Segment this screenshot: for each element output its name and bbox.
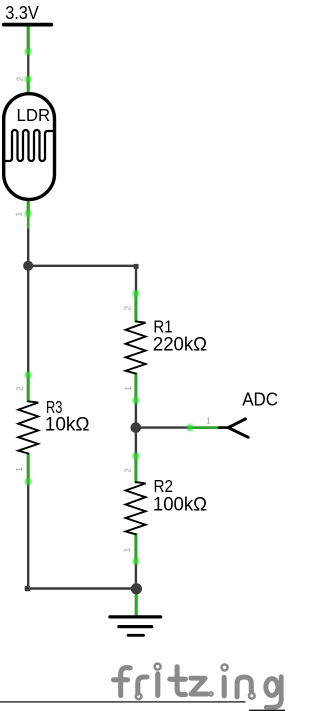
- svg-text:1: 1: [124, 386, 133, 391]
- svg-text:1: 1: [206, 416, 211, 425]
- svg-text:220kΩ: 220kΩ: [153, 333, 207, 355]
- svg-text:1: 1: [15, 467, 24, 472]
- svg-text:2: 2: [15, 386, 24, 391]
- svg-text:2: 2: [16, 76, 25, 81]
- svg-text:ADC: ADC: [242, 389, 278, 410]
- svg-text:1: 1: [123, 547, 132, 552]
- svg-text:1: 1: [15, 211, 24, 216]
- svg-text:3.3V: 3.3V: [5, 2, 39, 23]
- svg-text:2: 2: [123, 305, 132, 310]
- svg-text:2: 2: [124, 468, 133, 473]
- svg-text:100kΩ: 100kΩ: [153, 494, 207, 516]
- svg-text:10kΩ: 10kΩ: [45, 413, 90, 435]
- svg-text:LDR: LDR: [17, 105, 51, 125]
